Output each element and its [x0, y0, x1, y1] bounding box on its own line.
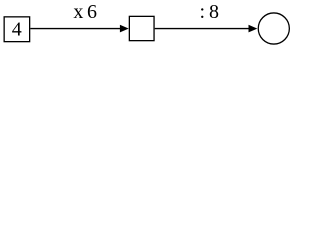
input box with value 4	[4, 17, 30, 42]
wire arrow 2 (divide)	[155, 28, 250, 30]
arrowhead 1	[120, 25, 129, 33]
wire arrow 1 (multiply)	[30, 28, 121, 30]
svg-text:4: 4	[12, 18, 22, 40]
svg-text:x6: x6	[73, 1, 97, 23]
result circle	[258, 13, 289, 44]
svg-text::8: :8	[200, 1, 219, 23]
arrowhead 2	[249, 25, 258, 33]
intermediate empty box	[129, 16, 154, 40]
